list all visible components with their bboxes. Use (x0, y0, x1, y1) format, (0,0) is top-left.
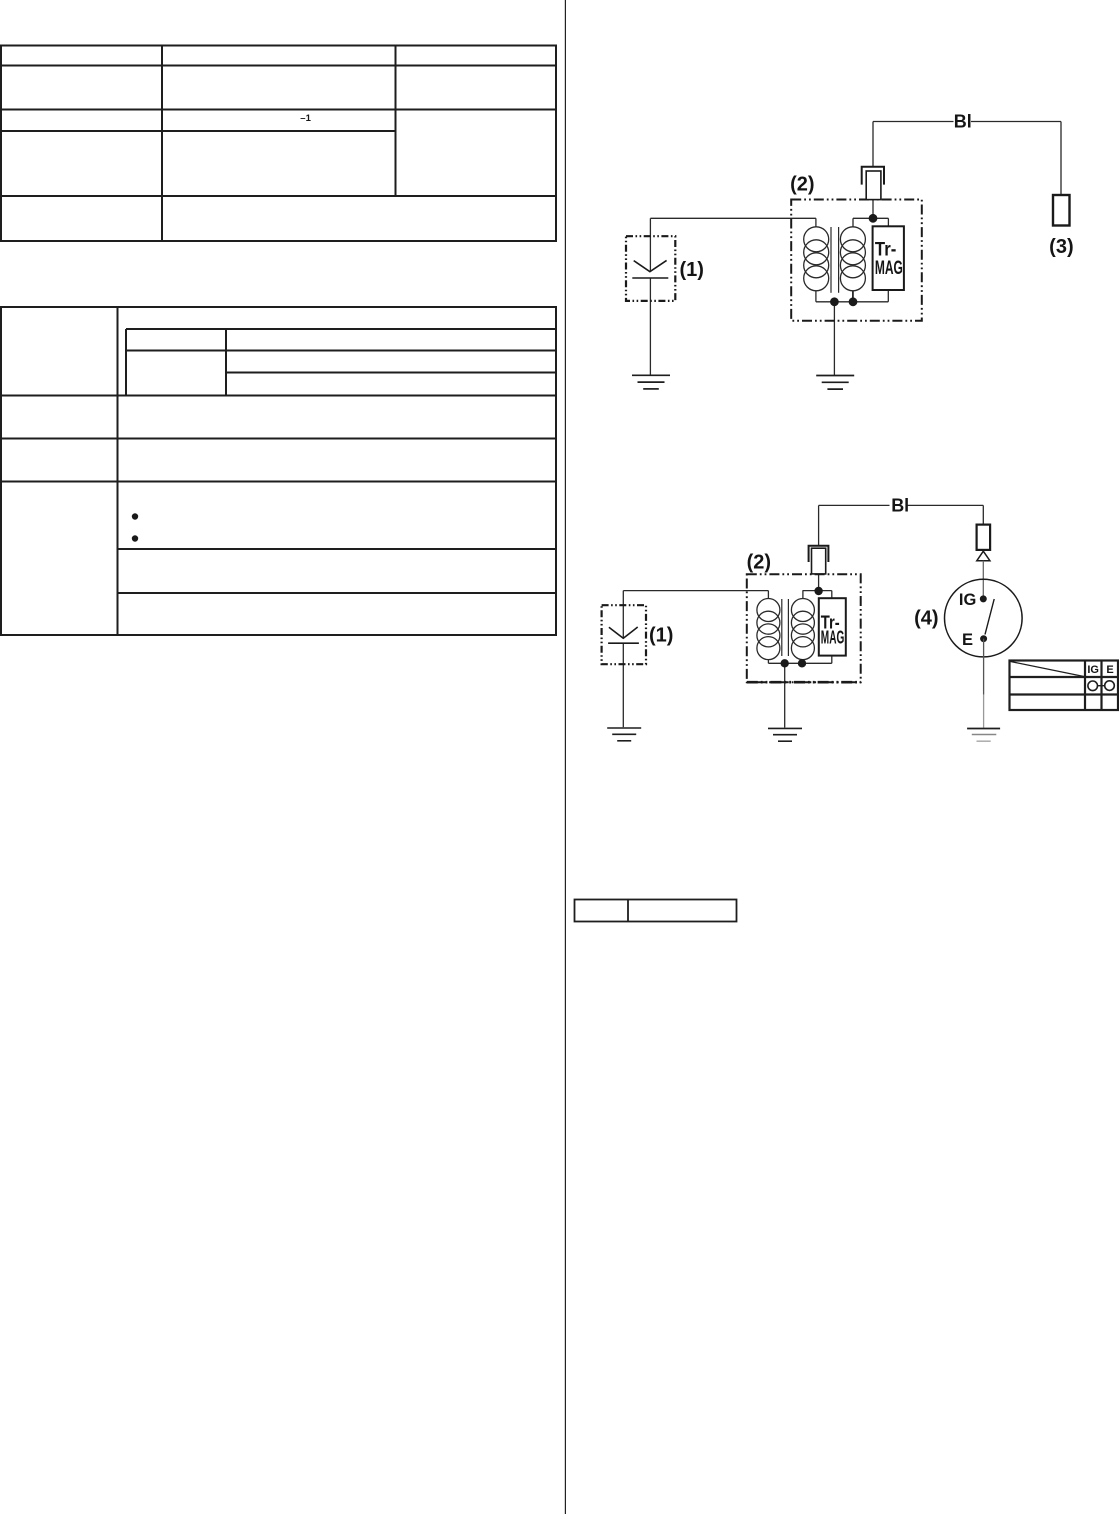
svg-text:–1: –1 (300, 113, 311, 124)
svg-text:(1): (1) (649, 625, 673, 647)
svg-text:MAG: MAG (821, 628, 845, 648)
svg-text:IG: IG (959, 591, 976, 609)
svg-text:(4): (4) (914, 608, 938, 630)
svg-text:(2): (2) (747, 552, 771, 574)
svg-text:Bl: Bl (891, 496, 909, 516)
svg-text:E: E (1106, 664, 1113, 676)
svg-text:E: E (962, 631, 973, 649)
svg-text:Bl: Bl (954, 112, 972, 132)
svg-text:(2): (2) (790, 174, 814, 196)
svg-text:(3): (3) (1049, 236, 1073, 258)
svg-text:(1): (1) (679, 259, 703, 281)
svg-text:MAG: MAG (875, 258, 903, 279)
svg-text:IG: IG (1087, 664, 1099, 676)
